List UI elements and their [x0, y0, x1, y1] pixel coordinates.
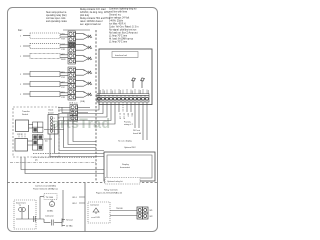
svg-text:Common: lightning-long no: Common: lightning-long no	[109, 8, 137, 11]
svg-text:W1R: W1R	[61, 59, 66, 61]
svg-text:wiring cl 2: wiring cl 2	[124, 124, 134, 126]
svg-text:0-40%: 25cfm: 0-40%: 25cfm	[109, 21, 123, 23]
svg-text:and line with lines: and line with lines	[109, 11, 128, 14]
svg-text:(15B): (15B)	[80, 101, 85, 103]
svg-text:operating relay (fan): operating relay (fan)	[46, 14, 67, 17]
svg-text:Contactor: Contactor	[45, 215, 54, 218]
svg-text:Interface brd: Interface brd	[115, 54, 128, 57]
svg-text:(5): (5)	[45, 141, 48, 143]
svg-text:sec. approx load out: sec. approx load out	[80, 23, 101, 26]
svg-text:rated. 120VAC class 2: rated. 120VAC class 2	[80, 20, 103, 23]
svg-text:Y2R: Y2R	[61, 49, 65, 51]
svg-text:Y2R: Y2R	[61, 97, 65, 99]
svg-text:Power limited 2 (30VA) bus: Power limited 2 (30VA) bus	[33, 188, 58, 191]
svg-text:24C: 24C	[131, 113, 133, 117]
svg-text:L1 Amp 70°C ters: L1 Amp 70°C ters	[109, 41, 128, 44]
svg-text:Ground: eq: Ground: eq	[109, 14, 121, 17]
svg-text:c6: c6	[83, 92, 85, 94]
svg-text:Input trans: Input trans	[16, 202, 26, 205]
svg-text:c-coil 24V: c-coil 24V	[91, 217, 100, 219]
svg-text:Figure 24-74 B (230VAC) kit: Figure 24-74 B (230VAC) kit	[96, 192, 122, 195]
svg-text:Ice Max: 45 R.H.: Ice Max: 45 R.H.	[109, 24, 126, 26]
svg-text:L1 115: L1 115	[119, 113, 121, 120]
svg-text:and operating codes: and operating codes	[46, 20, 68, 23]
svg-text:Optional 24V: Optional 24V	[124, 146, 136, 149]
svg-text:TB-240: TB-240	[116, 208, 123, 210]
svg-text:No load out: 8oz 2) Amp out: No load out: 8oz 2) Amp out	[109, 32, 138, 35]
svg-text:Relay contacts N.O. load: Relay contacts N.O. load	[80, 8, 106, 11]
svg-text:fused 3A: fused 3A	[133, 132, 142, 135]
svg-text:Y2C: Y2C	[61, 87, 65, 89]
svg-text:Control circuit (24VAC): Control circuit (24VAC)	[35, 185, 56, 188]
svg-text:24VAC: 24VAC	[47, 210, 54, 213]
svg-text:(2): (2)	[35, 160, 38, 162]
svg-text:To cust. display: To cust. display	[118, 140, 132, 143]
svg-text:c1: c1	[83, 34, 85, 36]
svg-text:To load: To load	[66, 220, 72, 222]
svg-text:c4: c4	[83, 70, 85, 72]
svg-text:No-signal: pilot/dry test run: No-signal: pilot/dry test run	[109, 29, 137, 32]
svg-text:Display: Display	[122, 164, 130, 166]
svg-text:Switch: Switch	[22, 113, 29, 116]
svg-text:Hi. load: 8+10MA qn-up: Hi. load: 8+10MA qn-up	[109, 38, 134, 41]
svg-text:coil max oper. coils: coil max oper. coils	[46, 17, 66, 20]
svg-text:Relay contacts HC1 and HC2: Relay contacts HC1 and HC2	[80, 17, 111, 20]
svg-text:120VAC, 2a long. Eng. 115V: 120VAC, 2a long. Eng. 115V	[80, 11, 109, 14]
svg-text:pilot duty: pilot duty	[80, 14, 90, 17]
svg-text:FAN: FAN	[61, 91, 65, 94]
svg-text:Optional relay kit: Optional relay kit	[107, 180, 123, 183]
svg-text:Color: Yel-Grn: Rated: 1/ 3 in: Color: Yel-Grn: Rated: 1/ 3 in	[109, 26, 139, 29]
svg-text:artsTrad: artsTrad	[52, 115, 110, 131]
svg-text:board: board	[48, 112, 54, 115]
svg-text:Y1R: Y1R	[61, 77, 65, 79]
svg-text:Relay Controls: Relay Controls	[104, 189, 118, 192]
svg-text:c5: c5	[83, 81, 85, 83]
svg-text:Contactor: Contactor	[90, 204, 99, 207]
svg-text:Transfer: Transfer	[22, 110, 30, 113]
svg-text:24V out: 24V out	[133, 129, 140, 132]
svg-text:Line ratings: 24 Volt: Line ratings: 24 Volt	[109, 17, 130, 20]
svg-text:L2 115: L2 115	[123, 113, 125, 120]
svg-text:c2: c2	[83, 45, 85, 47]
svg-text:Fan:: Fan:	[18, 30, 23, 32]
svg-text:15 B 1-xx: 15 B 1-xx	[69, 102, 77, 104]
svg-text:c3: c3	[83, 56, 85, 58]
svg-text:FAN: FAN	[61, 71, 65, 74]
svg-text:24 VAC: 24 VAC	[66, 225, 73, 228]
svg-text:thermostat: thermostat	[120, 166, 130, 169]
svg-text:Neon amp-protect a: Neon amp-protect a	[46, 11, 67, 14]
svg-text:L1 Amp 70°C ters: L1 Amp 70°C ters	[109, 35, 128, 38]
svg-text:Y1R: Y1R	[61, 39, 65, 41]
svg-text:TV 2440: TV 2440	[46, 197, 54, 199]
